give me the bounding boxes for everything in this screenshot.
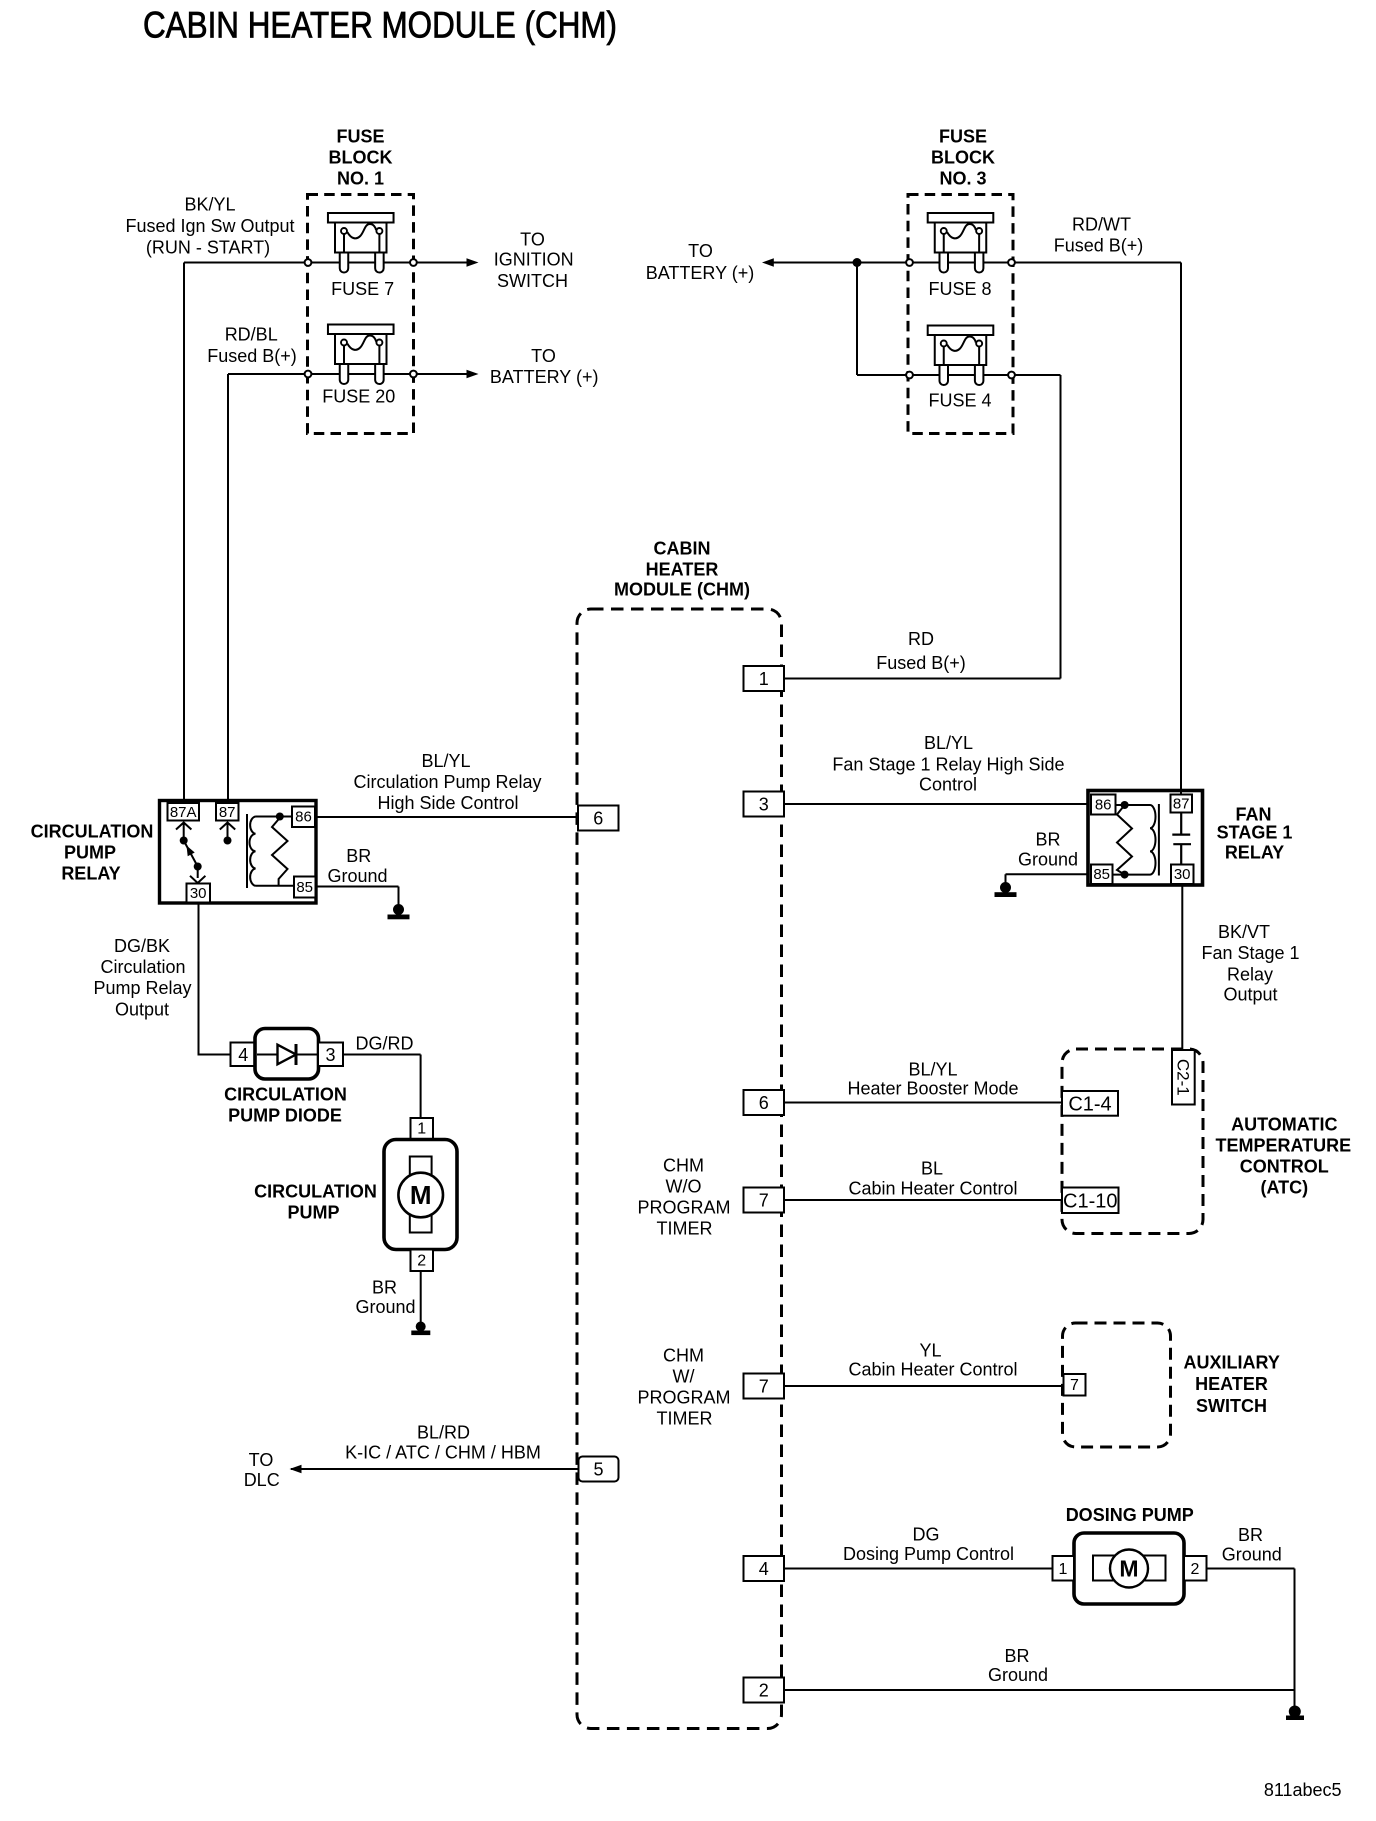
diode pin 3 box [318,1043,343,1067]
svg-text:FUSE: FUSE [336,127,384,147]
label BR Ground fan relay [1018,830,1078,870]
connector circle fuse8 right [1008,259,1015,266]
svg-text:HEATER: HEATER [646,560,719,580]
svg-text:7: 7 [1070,1377,1079,1394]
connector circle fuse7 left [305,259,312,266]
svg-text:PROGRAM: PROGRAM [637,1388,730,1408]
svg-text:MODULE (CHM): MODULE (CHM) [614,580,750,600]
ground symbol dosing pump [1286,1706,1304,1721]
label BR Ground bottom [988,1646,1048,1685]
svg-text:BK/VT: BK/VT [1218,922,1270,942]
svg-text:86: 86 [1095,797,1112,814]
wire DG dosing pump control [784,1568,1053,1570]
ground symbol fan relay [995,882,1017,897]
svg-text:Fused Ign Sw Output: Fused Ign Sw Output [125,216,294,236]
wire RD/BL fused B(+) [228,374,468,804]
svg-text:FUSE 8: FUSE 8 [928,279,991,299]
CHM W/ PROGRAM TIMER label [637,1346,730,1429]
svg-text:Pump Relay: Pump Relay [93,978,191,998]
label BL/YL Circulation Pump Relay High Side Control [353,751,541,813]
label FUSE 20 [322,387,395,407]
svg-text:Fan Stage 1: Fan Stage 1 [1201,943,1299,963]
label AUXILIARY HEATER SWITCH [1184,1353,1280,1417]
svg-text:RELAY: RELAY [1225,843,1284,863]
svg-text:3: 3 [325,1045,335,1065]
svg-text:2: 2 [1191,1561,1200,1578]
label BL/RD K-IC / ATC / CHM / HBM [345,1423,541,1463]
svg-text:M: M [410,1180,432,1210]
svg-text:BL/YL: BL/YL [924,733,973,753]
svg-text:Ground: Ground [1018,850,1078,870]
wire BL/RD K-IC to DLC [291,1468,579,1470]
svg-text:CIRCULATION: CIRCULATION [254,1182,377,1202]
svg-text:6: 6 [593,809,603,829]
svg-text:PUMP: PUMP [287,1203,339,1223]
circulation pump pin 2 box [411,1250,434,1272]
svg-text:High Side Control: High Side Control [377,793,518,813]
svg-text:DG/BK: DG/BK [114,936,170,956]
svg-text:Ground: Ground [355,1297,415,1317]
svg-text:Fan Stage 1 Relay High Side: Fan Stage 1 Relay High Side [832,755,1064,775]
fuse FUSE 4 [928,326,994,386]
label BR Ground circ relay [327,846,387,886]
AUX pin 7 box [1064,1374,1086,1396]
svg-text:C1-4: C1-4 [1068,1094,1111,1116]
svg-text:30: 30 [190,885,207,902]
svg-text:Fused B(+): Fused B(+) [207,346,297,366]
svg-text:Heater Booster Mode: Heater Booster Mode [847,1079,1018,1099]
label DG/RD [356,1034,414,1054]
svg-text:BL: BL [921,1159,943,1179]
svg-text:BL/RD: BL/RD [417,1423,470,1443]
connector circle fuse20 right [410,371,417,378]
wire BL/YL circulation pump relay high side control [315,816,579,818]
svg-text:NO. 3: NO. 3 [939,169,986,189]
svg-text:7: 7 [759,1191,769,1211]
svg-text:Output: Output [1223,985,1277,1005]
label TO BATTERY (+) left [490,346,599,387]
svg-text:PROGRAM: PROGRAM [637,1198,730,1218]
svg-text:2: 2 [759,1681,769,1701]
svg-text:FUSE: FUSE [939,127,987,147]
svg-text:CABIN HEATER MODULE (CHM): CABIN HEATER MODULE (CHM) [143,5,617,46]
AUX auxiliary heater switch dashed box [1063,1323,1171,1447]
svg-text:PUMP DIODE: PUMP DIODE [228,1106,342,1126]
relay FAN STAGE 1 RELAY box [1088,791,1203,886]
svg-text:4: 4 [759,1559,769,1579]
wire BR ground CHM pin2 [784,1689,1295,1691]
svg-text:YL: YL [919,1341,941,1361]
label TO DLC [244,1450,280,1490]
svg-text:Cabin Heater Control: Cabin Heater Control [848,1179,1017,1199]
svg-text:TO: TO [520,230,545,250]
label DG Dosing Pump Control [843,1525,1014,1565]
label FAN STAGE 1 RELAY [1217,805,1293,863]
svg-text:3: 3 [759,795,769,815]
fan relay pin 85 box [1091,865,1113,885]
ATC pin C1-4 box [1062,1091,1118,1116]
arrow to ignition switch [467,258,479,266]
label TO BATTERY (+) right [646,241,755,283]
label AUTOMATIC TEMPERATURE CONTROL (ATC) [1215,1115,1351,1198]
label BR Ground dosing pump [1222,1525,1282,1565]
arrow to battery (+) [467,370,479,378]
CHM pin 7 (w/ timer) box [744,1374,785,1399]
svg-text:C2-1: C2-1 [1173,1059,1192,1096]
svg-text:Output: Output [115,1000,169,1020]
label BL/YL Fan Stage 1 Relay High Side Control [832,733,1064,795]
svg-text:85: 85 [1093,866,1110,883]
label RD/BL Fused B(+) [207,325,297,367]
CHM pin 2 box [744,1678,785,1703]
connector circle fuse8 left [906,259,913,266]
label CABIN HEATER MODULE (CHM) [614,539,750,600]
wire RD/WT fused B(+) to fan relay 87 [1015,263,1181,797]
arrow to battery (+) right [762,258,774,266]
label CIRCULATION PUMP RELAY [31,822,154,884]
label BL Cabin Heater Control [848,1159,1017,1199]
svg-text:4: 4 [238,1045,248,1065]
svg-text:W/O: W/O [666,1177,702,1197]
junction battery feed [853,258,862,267]
svg-text:TO: TO [688,241,713,261]
fuse FUSE 8 [928,213,994,273]
CHM pin 3 box [744,792,785,817]
svg-text:BATTERY (+): BATTERY (+) [646,263,755,283]
arrow to DLC [290,1465,302,1473]
svg-text:1: 1 [1059,1561,1068,1578]
fan relay pin 86 box [1091,795,1116,815]
label BR Ground circ pump [355,1278,415,1318]
svg-text:PUMP: PUMP [64,843,116,863]
svg-text:CIRCULATION: CIRCULATION [31,822,154,842]
wire RD fused B(+) CHM pin1 [784,678,1061,680]
svg-text:Relay: Relay [1227,965,1273,985]
svg-text:TEMPERATURE: TEMPERATURE [1215,1136,1351,1156]
svg-text:TO: TO [249,1450,274,1470]
ground symbol circ relay [388,904,410,919]
svg-text:BR: BR [1004,1646,1029,1666]
label YL Cabin Heater Control [848,1341,1017,1380]
svg-text:FUSE 4: FUSE 4 [928,391,991,411]
svg-text:87: 87 [219,804,236,821]
svg-text:TIMER: TIMER [657,1219,713,1239]
connector circle fuse4 left [906,372,913,379]
dosing pump motor [1074,1533,1184,1604]
svg-text:Circulation: Circulation [100,957,185,977]
svg-text:CIRCULATION: CIRCULATION [224,1085,347,1105]
svg-text:W/: W/ [673,1367,695,1387]
fan relay coil [1113,801,1159,879]
wire BR ground circ relay [316,887,399,906]
svg-text:C1-10: C1-10 [1063,1191,1117,1213]
label RD/WT Fused B(+) [1054,215,1144,256]
svg-text:Cabin Heater Control: Cabin Heater Control [848,1360,1017,1380]
circulation pump pin 1 box [411,1118,434,1140]
wire YL cabin heater control [784,1385,1064,1387]
CHM pin 6 right box [744,1090,785,1115]
svg-text:RD/WT: RD/WT [1072,215,1131,235]
ATC pin C2-1 box [1172,1050,1195,1105]
svg-text:DG: DG [913,1525,940,1545]
svg-text:HEATER: HEATER [1195,1374,1268,1394]
svg-text:Ground: Ground [1222,1545,1282,1565]
label TO IGNITION SWITCH [494,230,574,292]
svg-text:Dosing Pump Control: Dosing Pump Control [843,1544,1014,1564]
svg-text:BL/YL: BL/YL [421,751,470,771]
pin 87A box [168,803,200,821]
svg-text:FUSE 20: FUSE 20 [322,387,395,407]
svg-text:CHM: CHM [663,1346,704,1366]
svg-text:DLC: DLC [244,1470,280,1490]
svg-text:BR: BR [346,846,371,866]
svg-text:TO: TO [531,346,556,366]
svg-text:Fused B(+): Fused B(+) [876,653,966,673]
svg-text:Control: Control [919,775,977,795]
svg-text:FUSE 7: FUSE 7 [331,279,394,299]
CHM pin 7 (w/o timer) box [744,1188,785,1213]
svg-text:DOSING PUMP: DOSING PUMP [1066,1505,1194,1525]
wire BR ground circ pump [420,1271,422,1322]
label FUSE BLOCK NO. 3 [931,127,995,189]
svg-text:85: 85 [296,879,313,896]
label FUSE 4 [928,391,991,411]
wire BR ground fan relay [1006,874,1090,882]
svg-text:M: M [1119,1556,1138,1582]
pin 86 box [292,807,315,828]
pin 85 box [294,877,316,898]
wire BR ground dosing pump [1207,1569,1295,1707]
circulation pump diode body [255,1029,319,1080]
label FUSE BLOCK NO. 1 [329,127,393,189]
svg-text:6: 6 [759,1093,769,1113]
label FUSE 7 [331,279,394,299]
fan relay pin 30 box [1171,865,1194,885]
dosing pump pin 2 box [1184,1556,1207,1581]
label RD Fused B(+) [876,629,966,673]
svg-text:CABIN: CABIN [654,539,711,559]
svg-text:30: 30 [1174,866,1191,883]
svg-text:1: 1 [417,1121,426,1138]
CHM pin 1 box [744,666,785,691]
svg-text:IGNITION: IGNITION [494,250,574,270]
ground symbol circ pump [411,1322,430,1336]
svg-text:RD: RD [908,629,934,649]
wire BL/YL heater booster mode [784,1102,1063,1104]
svg-text:RD/BL: RD/BL [225,325,278,345]
wire BK/YL fused ign sw output [184,263,468,805]
svg-text:BLOCK: BLOCK [931,148,995,168]
svg-text:Fused B(+): Fused B(+) [1054,236,1144,256]
fuse FUSE 7 [328,213,394,273]
connector circle fuse20 left [305,371,312,378]
ATC automatic temperature control dashed box [1062,1049,1203,1234]
svg-text:86: 86 [295,809,312,826]
pin 30 box [187,884,211,903]
label BK/YL Fused Ign Sw Output (RUN - START) [125,195,294,258]
svg-text:AUXILIARY: AUXILIARY [1184,1353,1280,1373]
fan relay pin 87 box [1171,795,1193,813]
title CABIN HEATER MODULE (CHM) [143,5,617,46]
svg-text:87A: 87A [170,804,197,821]
svg-text:BR: BR [1035,830,1060,850]
svg-text:SWITCH: SWITCH [497,271,568,291]
wire BK/VT fan stage 1 relay output [1181,885,1183,1049]
svg-text:FAN: FAN [1236,805,1272,825]
label BL/YL Heater Booster Mode [847,1060,1018,1099]
circulation pump motor [384,1140,457,1250]
label BK/VT Fan Stage 1 Relay Output [1201,922,1299,1005]
label CIRCULATION PUMP [254,1182,377,1223]
svg-text:Ground: Ground [988,1665,1048,1685]
label CIRCULATION PUMP DIODE [224,1085,347,1126]
CHM pin 6 left box [578,806,619,831]
wire to battery feed [774,263,1008,376]
svg-text:AUTOMATIC: AUTOMATIC [1231,1115,1337,1135]
label DG/BK Circulation Pump Relay Output [93,936,191,1020]
svg-text:5: 5 [593,1460,603,1480]
wire DG/RD diode to pump [343,1055,421,1119]
fan relay contact 87-30 [1172,813,1191,865]
svg-text:(RUN - START): (RUN - START) [146,238,270,258]
diode pin 4 box [231,1043,257,1067]
label DOSING PUMP [1066,1505,1194,1525]
connector circle fuse4 right [1008,372,1015,379]
wire BL/YL fan stage 1 relay high side control [784,803,1088,805]
cabin heater module CHM dashed box [577,609,782,1729]
fuse block no.1 dashed box [308,195,414,434]
svg-text:BATTERY (+): BATTERY (+) [490,367,599,387]
relay switch contacts [176,823,235,884]
ATC pin C1-10 box [1062,1188,1119,1214]
svg-text:BK/YL: BK/YL [184,195,235,215]
svg-text:TIMER: TIMER [657,1409,713,1429]
relay coil circulation pump relay [247,813,294,889]
svg-text:(ATC): (ATC) [1260,1178,1308,1198]
svg-text:SWITCH: SWITCH [1196,1396,1267,1416]
wire BL cabin heater control [784,1199,1063,1201]
relay CIRCULATION PUMP RELAY box [160,801,317,904]
svg-text:BLOCK: BLOCK [329,148,393,168]
label FUSE 8 [928,279,991,299]
pin 87 box [216,803,239,821]
CHM pin 5 left box [579,1457,619,1482]
dosing pump pin 1 box [1053,1556,1075,1581]
footer id 811abec5 [1264,1780,1342,1800]
fuse block no.3 dashed box [908,195,1013,434]
svg-text:Ground: Ground [327,866,387,886]
fuse FUSE 20 [328,325,394,385]
CHM W/O PROGRAM TIMER label [637,1156,730,1239]
svg-text:BR: BR [372,1278,397,1298]
svg-text:CHM: CHM [663,1156,704,1176]
svg-text:Circulation Pump Relay: Circulation Pump Relay [353,772,541,792]
svg-text:CONTROL: CONTROL [1240,1157,1329,1177]
svg-text:811abec5: 811abec5 [1264,1780,1342,1800]
wire fuse4 to CHM pin1 [1015,375,1060,679]
svg-text:DG/RD: DG/RD [356,1034,414,1054]
svg-text:1: 1 [759,669,769,689]
svg-text:RELAY: RELAY [61,864,120,884]
svg-text:NO. 1: NO. 1 [337,169,384,189]
wire DG/BK relay 30 to diode [199,903,231,1055]
svg-text:BL/YL: BL/YL [908,1060,957,1080]
svg-text:K-IC / ATC / CHM / HBM: K-IC / ATC / CHM / HBM [345,1443,541,1463]
connector circle fuse7 right [410,259,417,266]
svg-text:2: 2 [417,1253,426,1270]
CHM pin 4 box [744,1556,785,1581]
svg-text:87: 87 [1173,796,1190,813]
svg-text:7: 7 [759,1377,769,1397]
svg-text:BR: BR [1238,1525,1263,1545]
svg-text:STAGE 1: STAGE 1 [1217,823,1293,843]
